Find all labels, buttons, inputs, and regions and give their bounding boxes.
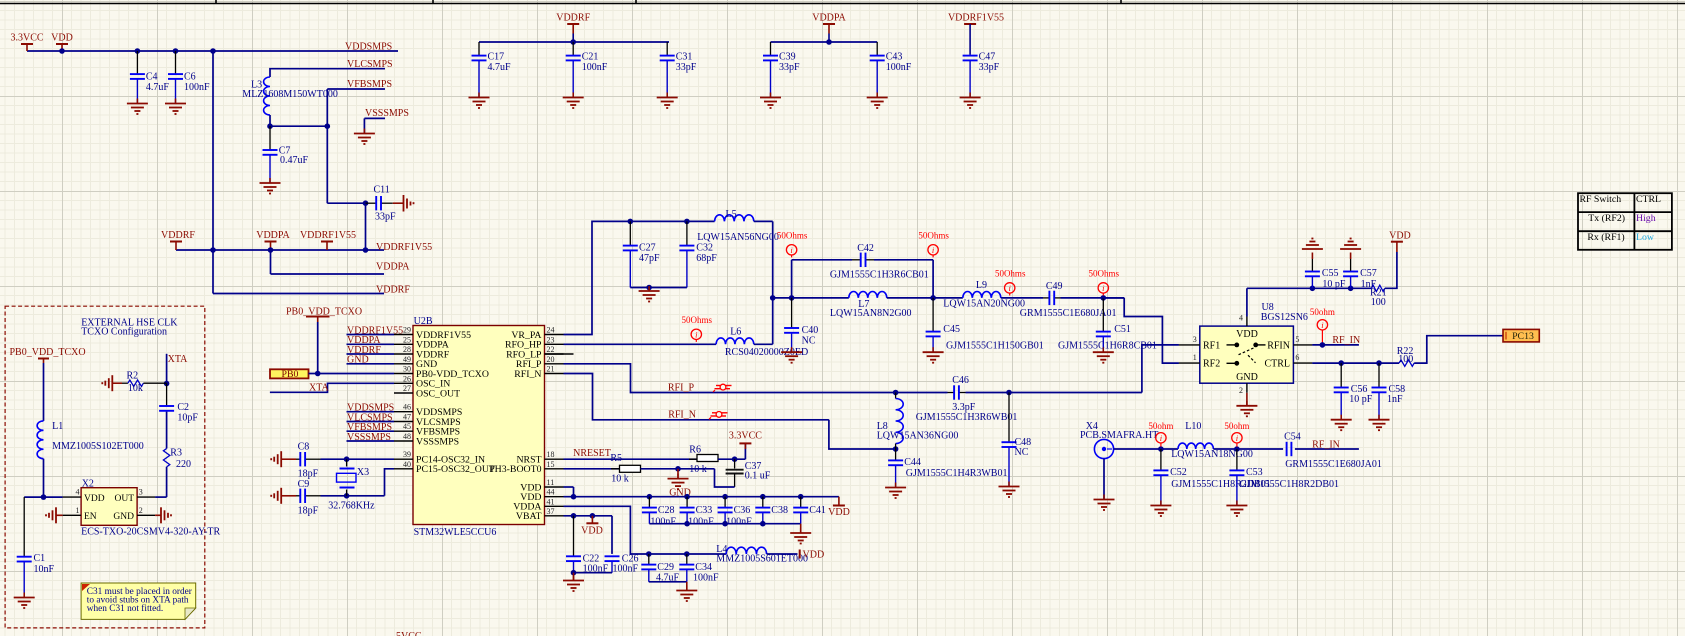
svg-text:NC: NC — [1015, 447, 1029, 458]
svg-text:GRM1555C1E680JA01: GRM1555C1E680JA01 — [1285, 459, 1382, 470]
svg-text:1: 1 — [1193, 353, 1197, 362]
svg-text:GND: GND — [1236, 372, 1258, 383]
svg-text:10 k: 10 k — [611, 473, 629, 484]
svg-text:4: 4 — [1239, 314, 1243, 323]
svg-text:C33: C33 — [696, 505, 713, 516]
svg-text:RF Switch: RF Switch — [1580, 194, 1622, 205]
svg-text:10k: 10k — [128, 383, 143, 394]
svg-text:VSSSMPS: VSSSMPS — [416, 436, 459, 447]
svg-text:C29: C29 — [657, 562, 674, 573]
svg-text:L10: L10 — [1185, 421, 1201, 432]
svg-text:C28: C28 — [658, 505, 675, 516]
svg-text:PH3-BOOT0: PH3-BOOT0 — [489, 464, 541, 475]
svg-text:C42: C42 — [857, 243, 874, 254]
svg-text:VBAT: VBAT — [516, 511, 542, 522]
svg-text:VDD: VDD — [51, 33, 73, 44]
svg-text:40: 40 — [403, 460, 411, 469]
svg-text:100nF: 100nF — [726, 517, 752, 528]
svg-text:VDDSMPS: VDDSMPS — [345, 42, 392, 53]
svg-text:L9: L9 — [976, 280, 987, 291]
svg-text:C46: C46 — [952, 375, 969, 386]
svg-text:29: 29 — [403, 326, 411, 335]
svg-text:RF_IN: RF_IN — [1332, 335, 1360, 346]
svg-text:0.47uF: 0.47uF — [280, 155, 309, 166]
svg-text:100nF: 100nF — [886, 62, 912, 73]
svg-text:MLZ1608M150WT000: MLZ1608M150WT000 — [242, 89, 338, 100]
svg-text:VDD: VDD — [828, 507, 850, 518]
svg-text:C34: C34 — [695, 562, 712, 573]
svg-text:C27: C27 — [639, 243, 656, 254]
svg-text:Rx (RF1): Rx (RF1) — [1587, 232, 1624, 243]
svg-text:6: 6 — [1295, 353, 1299, 362]
svg-text:L6: L6 — [730, 327, 741, 338]
svg-text:0.1 uF: 0.1 uF — [745, 470, 771, 481]
svg-text:37: 37 — [547, 507, 555, 516]
svg-text:High: High — [1636, 213, 1656, 224]
svg-text:10 pF: 10 pF — [1349, 394, 1373, 405]
svg-text:41: 41 — [547, 497, 555, 506]
svg-text:C51: C51 — [1114, 324, 1131, 335]
svg-text:3.3VCC: 3.3VCC — [10, 33, 43, 44]
svg-text:50Ohms: 50Ohms — [1089, 269, 1120, 279]
svg-text:RF_IN: RF_IN — [1312, 439, 1340, 450]
svg-text:VDD: VDD — [803, 549, 825, 560]
svg-text:MMZ1005S102ET000: MMZ1005S102ET000 — [52, 441, 144, 452]
svg-text:C36: C36 — [734, 505, 751, 516]
svg-text:1nF: 1nF — [1387, 394, 1403, 405]
svg-text:C54: C54 — [1284, 432, 1301, 443]
svg-text:C45: C45 — [943, 324, 960, 335]
svg-text:11: 11 — [547, 478, 555, 487]
svg-text:LQW15AN36NG00: LQW15AN36NG00 — [877, 430, 959, 441]
svg-text:PB0_VDD_TCXO: PB0_VDD_TCXO — [10, 347, 86, 358]
svg-text:OSC_OUT: OSC_OUT — [416, 388, 460, 399]
svg-text:100nF: 100nF — [582, 62, 608, 73]
svg-text:VDDRF1V55: VDDRF1V55 — [376, 242, 432, 253]
svg-text:VDD: VDD — [84, 494, 105, 504]
svg-text:23: 23 — [547, 335, 555, 344]
svg-text:GJM1555C1H4R3WB01: GJM1555C1H4R3WB01 — [906, 468, 1008, 479]
svg-text:5: 5 — [1295, 335, 1299, 344]
svg-text:10pF: 10pF — [177, 412, 198, 423]
svg-text:49: 49 — [403, 355, 411, 364]
svg-text:4.7uF: 4.7uF — [488, 62, 512, 73]
svg-text:OUT: OUT — [114, 494, 134, 504]
svg-text:33pF: 33pF — [779, 62, 800, 73]
svg-text:GJM1555C1H150GB01: GJM1555C1H150GB01 — [946, 341, 1044, 352]
svg-text:RF2: RF2 — [1203, 359, 1220, 370]
svg-text:GJM1555C1H8R2DB01: GJM1555C1H8R2DB01 — [1240, 479, 1339, 490]
svg-text:VFBSMPS: VFBSMPS — [347, 79, 392, 90]
svg-text:100nF: 100nF — [184, 82, 210, 93]
svg-text:C6: C6 — [184, 72, 196, 83]
svg-text:LQW15AN8N2G00: LQW15AN8N2G00 — [830, 308, 912, 319]
svg-text:PC15-OSC32_OUT: PC15-OSC32_OUT — [416, 464, 495, 475]
svg-text:VDD: VDD — [1389, 231, 1411, 242]
svg-text:NC: NC — [802, 335, 816, 346]
svg-text:10 pF: 10 pF — [1322, 279, 1346, 290]
svg-text:STM32WLE5CCU6: STM32WLE5CCU6 — [414, 527, 497, 538]
svg-text:MMZ1005S601ET000: MMZ1005S601ET000 — [716, 554, 808, 565]
svg-text:RFI_N: RFI_N — [668, 410, 696, 421]
svg-text:VSSSMPS: VSSSMPS — [365, 108, 409, 119]
svg-text:50Ohms: 50Ohms — [777, 231, 808, 241]
svg-text:RFIN: RFIN — [1267, 340, 1290, 351]
svg-text:5VCC: 5VCC — [396, 631, 422, 636]
svg-text:30: 30 — [403, 365, 411, 374]
svg-text:PCB.SMAFRA.HT: PCB.SMAFRA.HT — [1080, 430, 1158, 441]
svg-text:VSSSMPS: VSSSMPS — [347, 432, 391, 443]
svg-text:PC13: PC13 — [1512, 331, 1534, 342]
svg-text:L5: L5 — [726, 209, 737, 220]
svg-text:VLCSMPS: VLCSMPS — [347, 59, 393, 70]
svg-text:22: 22 — [547, 345, 555, 354]
svg-text:15: 15 — [547, 460, 555, 469]
svg-text:3: 3 — [1193, 335, 1197, 344]
svg-text:when C31 not fitted.: when C31 not fitted. — [87, 603, 163, 614]
svg-text:VDDRF: VDDRF — [161, 230, 195, 241]
svg-text:48: 48 — [403, 432, 411, 441]
svg-text:25: 25 — [403, 335, 411, 344]
svg-text:18pF: 18pF — [298, 506, 319, 517]
svg-text:C40: C40 — [802, 325, 819, 336]
svg-text:50Ohms: 50Ohms — [918, 231, 949, 241]
svg-text:EN: EN — [84, 512, 97, 522]
svg-text:18: 18 — [547, 450, 555, 459]
svg-text:C52: C52 — [1170, 467, 1187, 478]
svg-text:C53: C53 — [1246, 467, 1263, 478]
svg-text:C8: C8 — [298, 442, 310, 453]
svg-text:VDDRF: VDDRF — [556, 13, 590, 24]
svg-text:C41: C41 — [809, 505, 826, 516]
svg-text:28: 28 — [403, 345, 411, 354]
svg-text:C4: C4 — [146, 72, 158, 83]
svg-text:RF1: RF1 — [1203, 340, 1220, 351]
svg-text:VDD: VDD — [1236, 329, 1258, 340]
svg-text:VDDRF: VDDRF — [376, 285, 410, 296]
svg-text:C21: C21 — [582, 52, 599, 63]
svg-text:X3: X3 — [357, 467, 369, 478]
svg-text:21: 21 — [547, 365, 555, 374]
svg-text:C43: C43 — [886, 52, 903, 63]
svg-text:50Ohms: 50Ohms — [682, 315, 713, 325]
svg-text:C47: C47 — [979, 52, 996, 63]
svg-text:GND: GND — [113, 512, 134, 522]
svg-text:C44: C44 — [904, 457, 921, 468]
svg-text:GJM1555C1H3R6CB01: GJM1555C1H3R6CB01 — [830, 270, 929, 281]
svg-text:GND: GND — [347, 355, 369, 366]
svg-text:46: 46 — [403, 403, 411, 412]
svg-text:RFI_P: RFI_P — [668, 382, 695, 393]
svg-text:20: 20 — [547, 355, 555, 364]
svg-text:68pF: 68pF — [696, 253, 717, 264]
svg-text:3.3VCC: 3.3VCC — [729, 430, 762, 441]
svg-text:GJM1555C1H3R6WB01: GJM1555C1H3R6WB01 — [916, 412, 1018, 423]
svg-text:R6: R6 — [689, 444, 701, 455]
svg-text:24: 24 — [547, 326, 555, 335]
svg-text:33pF: 33pF — [375, 212, 396, 223]
svg-text:18pF: 18pF — [298, 469, 319, 480]
svg-text:BGS12SN6: BGS12SN6 — [1261, 312, 1308, 323]
svg-text:C57: C57 — [1360, 268, 1377, 279]
svg-text:50Ohms: 50Ohms — [995, 269, 1026, 279]
svg-text:100nF: 100nF — [650, 517, 676, 528]
svg-text:C31: C31 — [676, 52, 693, 63]
svg-text:47pF: 47pF — [639, 253, 660, 264]
svg-text:VDDRF1V55: VDDRF1V55 — [300, 230, 356, 241]
svg-text:220: 220 — [176, 459, 191, 470]
svg-text:XTA: XTA — [168, 354, 189, 365]
svg-text:50ohm: 50ohm — [1224, 421, 1249, 431]
svg-text:CTRL: CTRL — [1264, 359, 1290, 370]
svg-text:VDDRF1V55: VDDRF1V55 — [948, 13, 1004, 24]
svg-text:39: 39 — [403, 450, 411, 459]
svg-text:45: 45 — [403, 422, 411, 431]
svg-text:C38: C38 — [771, 505, 788, 516]
svg-text:1nF: 1nF — [1361, 279, 1377, 290]
svg-text:ECS-TXO-20CSMV4-320-AY-TR: ECS-TXO-20CSMV4-320-AY-TR — [81, 527, 220, 538]
svg-text:33pF: 33pF — [979, 62, 1000, 73]
svg-text:U2B: U2B — [414, 316, 433, 327]
svg-text:2: 2 — [139, 506, 143, 515]
svg-text:R2: R2 — [127, 371, 139, 382]
svg-text:PB0: PB0 — [282, 369, 299, 380]
svg-text:C11: C11 — [374, 185, 390, 196]
svg-text:10nF: 10nF — [34, 564, 55, 575]
svg-text:NRESET: NRESET — [573, 448, 611, 459]
svg-text:VDDPA: VDDPA — [256, 230, 290, 241]
svg-text:LQW15AN56NG00: LQW15AN56NG00 — [697, 232, 779, 243]
svg-text:R3: R3 — [170, 447, 182, 458]
svg-text:LQW15AN18NG00: LQW15AN18NG00 — [1171, 449, 1253, 460]
svg-text:VDDPA: VDDPA — [376, 262, 410, 273]
svg-text:32.768KHz: 32.768KHz — [328, 501, 375, 512]
svg-text:4.7uF: 4.7uF — [146, 82, 170, 93]
svg-text:33pF: 33pF — [676, 62, 697, 73]
svg-text:50ohm: 50ohm — [1148, 421, 1173, 431]
svg-text:44: 44 — [547, 488, 555, 497]
svg-text:Tx (RF2): Tx (RF2) — [1588, 213, 1625, 224]
svg-text:LQW15AN20NG00: LQW15AN20NG00 — [943, 298, 1025, 309]
svg-text:100nF: 100nF — [693, 573, 719, 584]
svg-text:C39: C39 — [779, 52, 796, 63]
svg-text:XTA: XTA — [309, 382, 330, 393]
svg-text:100nF: 100nF — [688, 517, 714, 528]
svg-text:2: 2 — [1239, 386, 1243, 395]
svg-text:C49: C49 — [1046, 281, 1063, 292]
svg-text:RFI_N: RFI_N — [514, 369, 541, 380]
svg-text:C32: C32 — [696, 243, 713, 254]
svg-text:TCXO Configuration: TCXO Configuration — [81, 327, 167, 338]
svg-text:Low: Low — [1636, 232, 1655, 243]
svg-text:100: 100 — [1398, 354, 1413, 365]
svg-text:L1: L1 — [52, 421, 63, 432]
svg-text:VDD: VDD — [581, 525, 603, 536]
svg-text:100nF: 100nF — [613, 563, 639, 574]
svg-text:CTRL: CTRL — [1636, 194, 1661, 205]
svg-text:C1: C1 — [34, 553, 46, 564]
svg-text:GRM1555C1E680JA01: GRM1555C1E680JA01 — [1020, 308, 1117, 319]
svg-text:1: 1 — [76, 506, 80, 515]
svg-text:4: 4 — [76, 488, 80, 497]
svg-text:C55: C55 — [1322, 268, 1339, 279]
svg-text:50ohm: 50ohm — [1310, 307, 1335, 317]
svg-text:47: 47 — [403, 413, 411, 422]
svg-text:3: 3 — [139, 488, 143, 497]
svg-text:X2: X2 — [82, 479, 94, 490]
svg-text:R5: R5 — [610, 453, 622, 464]
svg-text:C17: C17 — [488, 52, 505, 63]
svg-text:100: 100 — [1371, 297, 1386, 308]
svg-text:27: 27 — [403, 384, 411, 393]
svg-text:VDDPA: VDDPA — [812, 13, 846, 24]
svg-text:26: 26 — [403, 374, 411, 383]
svg-text:C9: C9 — [298, 479, 310, 490]
